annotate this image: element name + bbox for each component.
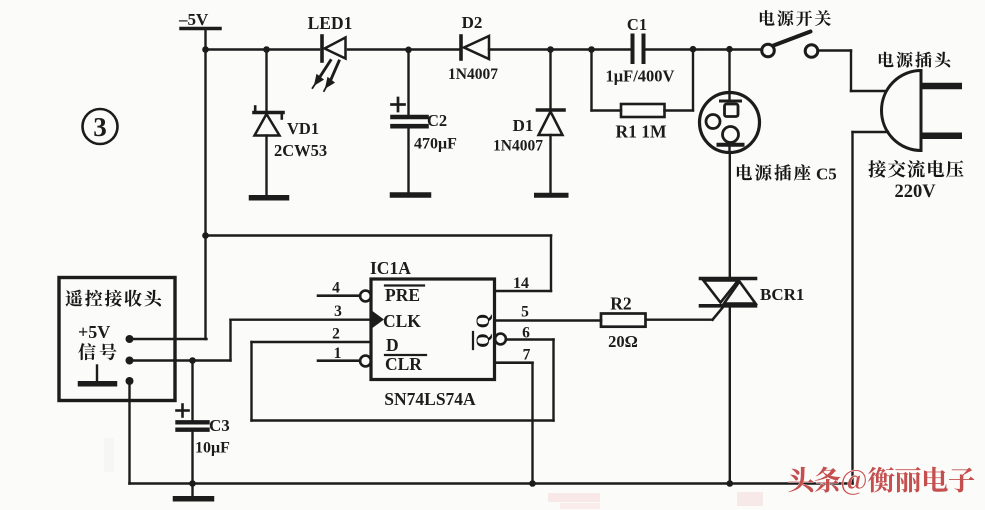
wire ground pin down: [128, 381, 130, 484]
capacitor C1 1uF/400V: [627, 15, 647, 62]
svg-text:6: 6: [522, 325, 530, 342]
wire signal pin to CLK: [130, 320, 231, 364]
pin 5 Q output wire to R2: [495, 304, 602, 321]
watermark toutiao@hengli dianzi: [788, 467, 974, 495]
svg-text:D2: D2: [462, 13, 483, 32]
svg-text:3: 3: [93, 112, 107, 142]
svg-text:VD1: VD1: [287, 119, 319, 138]
IC U1 box (SN74LS74A): [370, 258, 495, 409]
diode D1 1N4007: [493, 50, 564, 194]
svg-text:BCR1: BCR1: [760, 285, 804, 304]
svg-text:2CW53: 2CW53: [274, 141, 327, 160]
capacitor C3 10uF: [177, 361, 231, 484]
capacitor C2 470uF: [392, 50, 458, 193]
label yaokong jieshoutou: [66, 290, 162, 307]
svg-text:C2: C2: [427, 111, 447, 130]
svg-text:R1 1M: R1 1M: [615, 122, 667, 142]
switch (dianyuan kaiguan): [762, 32, 818, 58]
power socket C5: [700, 50, 760, 153]
svg-text:C3: C3: [209, 416, 230, 435]
wire triac gate: [646, 307, 724, 320]
svg-text:CLK: CLK: [383, 311, 421, 331]
IC output label Qbar: [473, 332, 494, 349]
svg-text:14: 14: [513, 275, 529, 292]
svg-text:D1: D1: [513, 116, 534, 135]
receiver internal ground stub: [81, 366, 115, 384]
wire plug lower lead down right side: [853, 132, 889, 484]
svg-text:220V: 220V: [894, 182, 936, 202]
wire top rail: [206, 48, 763, 50]
zener VD1 2CW53: [254, 50, 327, 197]
svg-text:4: 4: [332, 280, 340, 297]
label dianyuan chazuo C5: [737, 164, 811, 181]
svg-text:3: 3: [334, 303, 342, 320]
remote receiver box (yaokong jieshoutou): [59, 278, 175, 401]
pin 6 Qbar bubble and feedback wire: [252, 325, 554, 421]
ground under VD1: [252, 195, 287, 201]
wire triac to bottom rail: [729, 307, 731, 484]
svg-text:5: 5: [521, 304, 529, 321]
label xinhao: [78, 343, 116, 360]
svg-text:LED1: LED1: [308, 13, 353, 33]
wire switch to plug: [818, 51, 885, 92]
label dianyuan kaiguan: [760, 10, 831, 26]
svg-text:1N4007: 1N4007: [493, 138, 543, 155]
pin 4 PRE input: [318, 280, 371, 302]
wire rail 2 (-5V distribution): [202, 232, 551, 239]
svg-text:1: 1: [334, 345, 342, 362]
power terminal -5V: [178, 10, 220, 29]
wire socket to triac: [729, 153, 731, 278]
resistor R1 1M parallel branch: [592, 50, 694, 142]
plug (dianyuan chatou): [882, 71, 963, 151]
svg-text:10μF: 10μF: [195, 440, 230, 457]
svg-text:1N4007: 1N4007: [448, 66, 498, 83]
svg-text:C5: C5: [816, 165, 837, 184]
label jie jiaoliu dianya 220V: [868, 160, 963, 178]
svg-text:IC1A: IC1A: [370, 258, 411, 278]
svg-text:2: 2: [332, 326, 340, 343]
node rail junction dots: [202, 46, 733, 53]
svg-text:CLR: CLR: [385, 354, 422, 374]
svg-text:7: 7: [523, 347, 531, 364]
label dianyuan chatou: [879, 52, 951, 68]
node receiver terminals: [126, 335, 134, 385]
pin 14 wire: [495, 275, 552, 292]
svg-text:R2: R2: [610, 294, 631, 314]
circled figure number 3: [83, 109, 118, 144]
svg-text:D: D: [386, 335, 399, 355]
svg-text:C1: C1: [627, 15, 647, 34]
ground symbol at C3: [176, 484, 212, 499]
pin 7 ground wire: [495, 347, 533, 484]
wire +5V pin to main vertical: [130, 338, 207, 340]
wire pin14 riser: [550, 236, 552, 292]
IC pin label PRE: [385, 285, 424, 305]
pin 1 CLR input: [318, 345, 371, 366]
IC pin label CLR: [385, 354, 426, 374]
ground under C2: [393, 192, 429, 198]
svg-text:Q: Q: [474, 314, 494, 328]
LED LED1: [308, 13, 353, 91]
ground under D1: [537, 193, 567, 198]
wire main left vertical: [204, 29, 206, 340]
IC pin label CLK + edge triangle: [372, 311, 422, 331]
svg-text:SN74LS74A: SN74LS74A: [384, 389, 476, 409]
svg-text:470μF: 470μF: [414, 136, 457, 153]
pin 3 CLK wire: [231, 303, 372, 320]
wire bottom ground rail: [130, 480, 853, 487]
faint scan ghosts bottom: [104, 438, 763, 509]
svg-text:+5V: +5V: [78, 322, 110, 342]
svg-text:20Ω: 20Ω: [608, 332, 638, 351]
resistor R2 20ohm: [601, 294, 646, 352]
diode D2 1N4007: [448, 13, 498, 83]
svg-text:PRE: PRE: [385, 285, 420, 305]
svg-text:–5V: –5V: [178, 10, 209, 29]
svg-text:Q: Q: [474, 333, 494, 347]
triac BCR1: [701, 279, 805, 306]
svg-text:1μF/400V: 1μF/400V: [606, 67, 675, 86]
pin 2 D wire: [252, 326, 372, 343]
